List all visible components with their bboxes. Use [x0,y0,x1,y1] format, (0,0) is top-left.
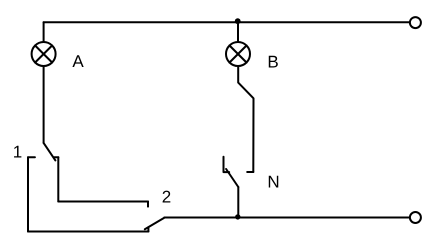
switch 2 lower contact [147,227,149,231]
wire upper strap to switch 2 upper contact [58,201,148,203]
wire bottom strap to switch 2 lower contact [28,231,148,233]
junction dot bottom [235,214,240,219]
wire top supply rail [44,21,410,23]
wire switch N pole to bottom junction [237,187,239,217]
wire lamp A to switch 1 pole [43,66,45,143]
wire switch 2 pole to bottom terminal [164,217,410,219]
lamp A [32,42,56,66]
wire switch 1 left contact down to bottom strap [27,157,29,231]
wire lamp B down with jog to switch N right contact [238,66,253,172]
junction dot top [235,18,241,24]
svg-text:1: 1 [13,143,22,162]
lamp B [226,42,250,66]
wire drop from rail to lamp B [237,22,239,42]
svg-text:A: A [72,52,84,71]
switch 2 upper contact [147,202,149,207]
switch N lever [226,169,238,187]
switch N right contact [247,171,253,173]
switch N left contact [224,157,230,172]
switch 2 lever [145,218,165,229]
svg-text:N: N [267,172,279,191]
wire drop from rail to lamp A [43,22,45,42]
switch 1 right contact [54,156,58,158]
switch 1 lever [44,143,56,161]
svg-text:2: 2 [162,187,171,206]
svg-text:B: B [267,52,278,71]
terminal bottom right [410,212,421,223]
terminal top right [410,17,421,28]
wire switch 1 right contact down [57,157,59,201]
switch 1 left contact [28,156,35,158]
